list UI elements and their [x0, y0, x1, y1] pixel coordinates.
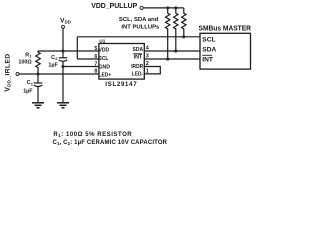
- svg-text:SDA: SDA: [133, 47, 144, 53]
- svg-text:INT: INT: [134, 55, 143, 61]
- svg-text:SCL: SCL: [202, 36, 215, 43]
- svg-text:1: 1: [146, 69, 149, 75]
- svg-text:R1: 100Ω 5% RESISTOR: R1: 100Ω 5% RESISTOR: [53, 132, 132, 138]
- svg-text:SCL: SCL: [99, 56, 109, 62]
- svg-text:2: 2: [146, 61, 149, 67]
- svg-text:LED-: LED-: [132, 72, 143, 78]
- svg-text:8: 8: [94, 69, 97, 75]
- svg-text:U1: U1: [99, 39, 105, 44]
- svg-text:VDD_PULLUP: VDD_PULLUP: [91, 3, 137, 10]
- svg-text:GND: GND: [99, 64, 111, 70]
- svg-text:SCL, SDA and: SCL, SDA and: [119, 17, 159, 23]
- svg-text:5: 5: [94, 46, 97, 52]
- svg-text:100Ω: 100Ω: [18, 59, 32, 65]
- svg-text:DD: DD: [65, 20, 71, 25]
- svg-text:INT: INT: [202, 56, 213, 63]
- svg-text:3: 3: [146, 54, 149, 60]
- svg-text:C1, C2: 1µF CERAMIC 10V CAPACI: C1, C2: 1µF CERAMIC 10V CAPACITOR: [53, 140, 168, 146]
- svg-text:7: 7: [94, 61, 97, 67]
- svg-text:ISL29147: ISL29147: [105, 81, 137, 88]
- svg-text:1µF: 1µF: [48, 62, 58, 68]
- svg-text:IRDR: IRDR: [131, 64, 144, 70]
- svg-text:6: 6: [94, 54, 97, 60]
- svg-text:VDD: VDD: [99, 48, 110, 54]
- svg-text:LED+: LED+: [99, 72, 112, 78]
- svg-text:1µF: 1µF: [23, 89, 33, 95]
- svg-text:_IRLED: _IRLED: [4, 54, 11, 81]
- svg-text:4: 4: [146, 46, 149, 52]
- svg-text:INT PULLUPs: INT PULLUPs: [121, 25, 160, 31]
- svg-text:SMBus MASTER: SMBus MASTER: [199, 26, 252, 33]
- svg-text:SDA: SDA: [202, 47, 216, 54]
